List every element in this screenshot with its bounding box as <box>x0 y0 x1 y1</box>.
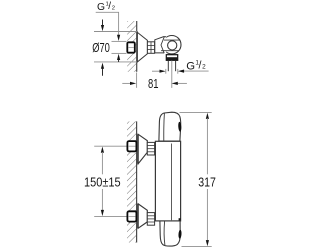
extension line 150 top <box>94 145 128 147</box>
fitting edge extension line top <box>112 40 127 42</box>
svg-text:/: / <box>199 60 202 72</box>
extension line 317 top <box>180 111 212 113</box>
leader arrow G1/2 top (points down at fitting) <box>117 35 120 41</box>
outlet stub pipe <box>168 60 175 71</box>
extension line 317 bottom <box>182 246 212 248</box>
extension line 150 bottom <box>94 215 128 217</box>
temperature stop tick <box>179 218 181 220</box>
fitting edge extension line bottom <box>112 52 127 54</box>
outlet centre line <box>171 61 173 88</box>
top escutcheon cone <box>138 134 148 163</box>
svg-text:150±15: 150±15 <box>84 176 121 190</box>
thermostat body <box>155 141 180 221</box>
G1/2 outlet arrow right (points left) with leader <box>178 70 209 73</box>
label G1/2 top <box>97 1 115 13</box>
escutcheon cone (top view) <box>137 32 147 62</box>
dimension line 150±15 with arrows <box>101 147 104 217</box>
svg-text:317: 317 <box>198 176 216 190</box>
valve head circle (top view) <box>163 36 181 54</box>
top knob grip mark <box>178 122 182 132</box>
dimension line 317 with arrows <box>206 113 209 247</box>
bottom knob grip mark <box>178 230 182 239</box>
wall (hatched, front view) <box>127 121 137 242</box>
outlet union nut (top view) <box>166 55 177 61</box>
bottom inlet nut <box>127 211 136 221</box>
dimension 81 right arrow (points left at pipe centre) <box>172 82 187 85</box>
bottom control knob <box>160 221 180 246</box>
outlet thread extension bars <box>166 69 178 74</box>
valve spindle circle <box>168 41 177 50</box>
wall fitting (embedded socket, top view) <box>127 42 135 52</box>
svg-text:2: 2 <box>112 5 115 11</box>
leader line G1/2 top <box>96 12 119 36</box>
G1/2 outlet arrow left (points right) <box>152 70 166 73</box>
svg-text:G: G <box>186 61 195 73</box>
svg-text:G: G <box>97 2 105 13</box>
extension line Ø70 top <box>94 31 138 33</box>
dimension arrow Ø70 bottom (points up) <box>101 63 104 76</box>
dimension arrow Ø70 top (points down) <box>101 20 104 32</box>
valve body taper notch <box>161 37 164 53</box>
svg-text:81: 81 <box>148 77 159 91</box>
leader arrow up at fitting bottom <box>117 54 120 62</box>
extension line Ø70 bottom <box>94 61 137 63</box>
bottom threaded nipple <box>147 213 154 226</box>
dimension 81 left arrow (points right at wall) <box>122 82 136 85</box>
label G1/2 right <box>186 60 206 73</box>
valve body left section (top view) <box>155 37 167 53</box>
threaded nipple (top view) <box>147 42 154 54</box>
valve head chords <box>164 39 180 41</box>
top inlet nut <box>127 141 136 151</box>
bottom escutcheon cone <box>138 204 148 228</box>
top threaded nipple <box>147 142 154 155</box>
wall surface extension line (for 81) <box>136 73 138 88</box>
svg-text:Ø70: Ø70 <box>92 41 110 55</box>
top control knob <box>159 112 181 141</box>
wall (hatched, top view) <box>127 21 137 72</box>
svg-text:2: 2 <box>202 64 206 71</box>
